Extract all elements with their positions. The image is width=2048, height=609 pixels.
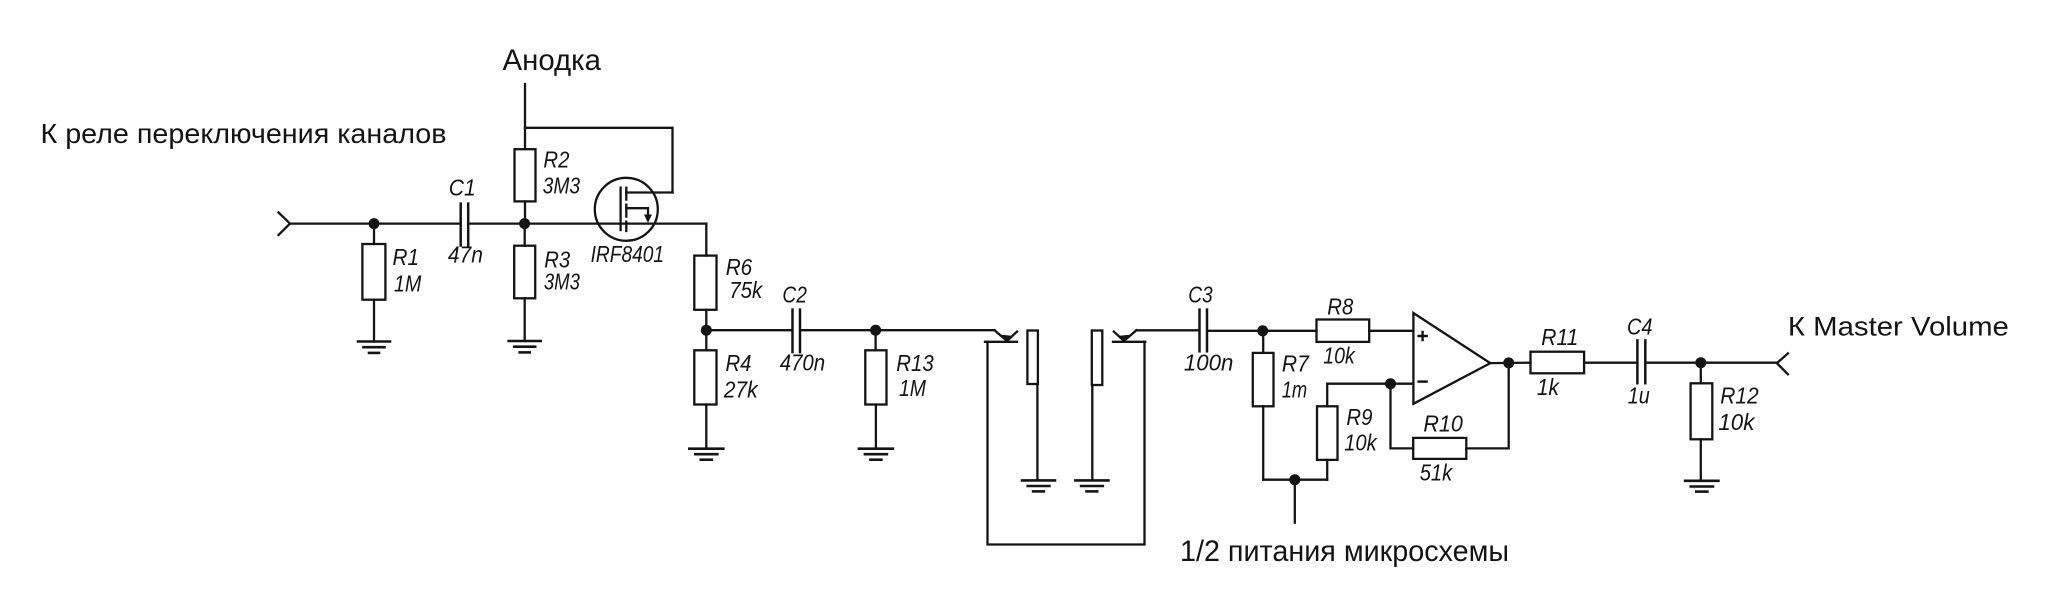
wire R4 bottom lead <box>705 405 707 449</box>
ground below R1 <box>358 342 390 353</box>
wire node to C2 <box>706 329 792 331</box>
svg-text:27k: 27k <box>723 377 759 403</box>
potentiometer P1 wiper arrow <box>995 330 1008 341</box>
wire R3 bottom lead <box>524 298 526 341</box>
svg-text:C1: C1 <box>449 175 476 201</box>
node minus junction <box>1385 378 1396 389</box>
wire drain loop <box>525 128 673 193</box>
capacitor C2 <box>791 310 794 353</box>
node R6/R4/C2 junction <box>701 325 712 336</box>
node R13 junction <box>870 325 881 336</box>
svg-text:100n: 100n <box>1184 350 1234 376</box>
svg-text:R1: R1 <box>393 244 420 270</box>
wire R9 bottom lead <box>1326 460 1328 480</box>
wire C2 to pot1 <box>801 329 995 331</box>
svg-text:3М3: 3М3 <box>543 173 581 199</box>
wire R2 bottom lead <box>524 201 526 223</box>
resistor R10 <box>1413 438 1466 459</box>
svg-text:Анодка: Анодка <box>503 44 602 77</box>
transistor Q1 IRF8401 <box>591 178 673 267</box>
svg-text:1u: 1u <box>1628 383 1650 409</box>
wire opamp minus input <box>1327 384 1413 407</box>
ground below R13 <box>859 449 893 460</box>
capacitor C1 <box>459 204 462 246</box>
node bias junction <box>1289 474 1300 485</box>
svg-text:R8: R8 <box>1327 293 1353 319</box>
svg-text:3М3: 3М3 <box>544 269 580 295</box>
svg-text:75k: 75k <box>729 277 763 303</box>
wire R6 bottom lead <box>705 310 707 330</box>
capacitor C3 <box>1198 310 1201 352</box>
node R1 junction <box>369 218 380 229</box>
wire R11 to C4 <box>1584 362 1636 364</box>
potentiometer P2 wiper arrow <box>1124 330 1136 341</box>
resistor R3 <box>524 224 526 246</box>
svg-text:R6: R6 <box>726 254 753 280</box>
svg-text:1M: 1M <box>899 375 927 401</box>
wire pot frame loop <box>988 342 1145 545</box>
wire opamp output <box>1490 362 1530 365</box>
svg-text:1M: 1M <box>394 271 422 297</box>
node R2/R3 junction <box>519 218 530 229</box>
resistor R9 <box>1317 406 1338 460</box>
svg-text:C2: C2 <box>782 282 807 308</box>
wire R13 bottom lead <box>875 405 877 449</box>
svg-text:R11: R11 <box>1541 324 1578 350</box>
potentiometer P2 element <box>1092 331 1103 386</box>
wire input to C1 <box>290 222 460 224</box>
resistor R12 <box>1700 363 1702 384</box>
node output junction <box>1503 357 1514 368</box>
wire R7 bottom lead <box>1262 406 1264 479</box>
svg-text:К реле переключения каналов: К реле переключения каналов <box>41 118 447 149</box>
ground below P2 <box>1075 480 1108 491</box>
svg-text:47n: 47n <box>448 242 483 268</box>
node R12 junction <box>1695 357 1706 368</box>
svg-text:R4: R4 <box>726 350 752 376</box>
resistor R4 <box>705 330 707 350</box>
wire minus to R10 <box>1391 384 1414 449</box>
svg-text:К Master Volume: К Master Volume <box>1788 311 2009 341</box>
wire R1 bottom lead <box>373 300 375 342</box>
svg-text:R12: R12 <box>1720 383 1759 409</box>
svg-text:10k: 10k <box>1323 343 1356 369</box>
ground below R12 <box>1685 481 1718 492</box>
resistor R6 <box>694 256 716 310</box>
output arrow <box>1777 353 1788 374</box>
svg-text:C4: C4 <box>1627 314 1653 340</box>
svg-text:10k: 10k <box>1718 409 1755 435</box>
svg-text:1m: 1m <box>1282 376 1308 402</box>
input arrow <box>279 213 291 236</box>
svg-text:R13: R13 <box>896 350 934 376</box>
wire Анодка feed <box>524 84 526 149</box>
wire R8 to opamp <box>1369 330 1413 332</box>
wire R1 top lead <box>373 224 375 244</box>
ground below R3 <box>509 341 541 352</box>
wire pot2 to C3 <box>1136 329 1198 331</box>
resistor R1 <box>362 244 385 300</box>
node C3/R7/R8 junction <box>1257 325 1268 336</box>
svg-text:1k: 1k <box>1537 374 1560 400</box>
ground below R4 <box>689 449 723 460</box>
resistor R13 <box>874 330 876 350</box>
resistor R2 <box>515 149 536 201</box>
svg-text:51k: 51k <box>1420 460 1454 486</box>
svg-text:R9: R9 <box>1346 404 1372 430</box>
resistor R7 <box>1262 331 1264 353</box>
capacitor C4 <box>1636 340 1639 383</box>
wire bias rail <box>1263 479 1327 481</box>
wire R10 to output <box>1466 363 1508 448</box>
wire C4 to output arrow <box>1646 362 1777 364</box>
wire R12 bottom lead <box>1700 439 1702 481</box>
svg-text:R7: R7 <box>1282 350 1310 376</box>
svg-text:R2: R2 <box>543 147 569 173</box>
wire to R6 <box>705 224 707 256</box>
wire bias stub <box>1294 480 1296 523</box>
resistor R8 <box>1317 320 1370 342</box>
wire C1 to R6 corner through mosfet <box>470 222 707 224</box>
svg-text:470n: 470n <box>780 350 826 376</box>
wire C3 to R8 <box>1208 330 1317 332</box>
svg-text:R10: R10 <box>1423 411 1463 437</box>
resistor R11 <box>1531 352 1585 374</box>
svg-text:IRF8401: IRF8401 <box>591 241 665 267</box>
ground below P1 <box>1022 480 1055 491</box>
potentiometer P1 element <box>1027 331 1038 385</box>
svg-text:C3: C3 <box>1188 282 1213 308</box>
svg-text:1/2 питания микросхемы: 1/2 питания микросхемы <box>1180 535 1509 568</box>
op-amp U1 <box>1413 313 1490 404</box>
svg-text:10k: 10k <box>1344 430 1378 456</box>
